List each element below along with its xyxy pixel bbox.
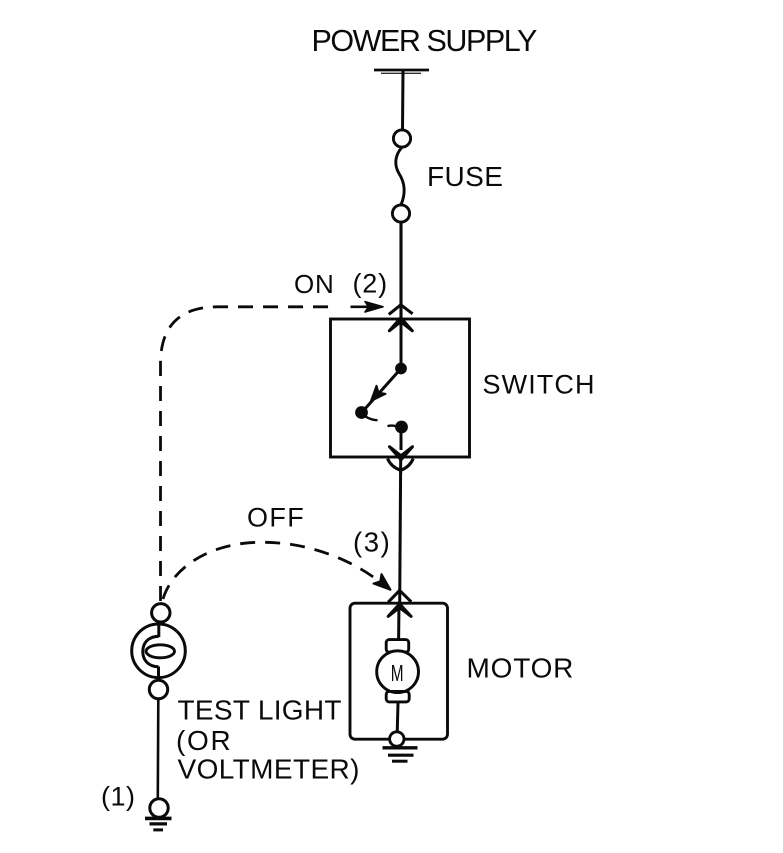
test light bulb body	[132, 624, 186, 678]
OFF curve arrowhead	[374, 574, 391, 590]
wire switch to motor	[400, 458, 401, 602]
switch top contact	[395, 363, 407, 375]
wire fuse to switch connector	[399, 222, 402, 318]
svg-text:(OR: (OR	[176, 725, 232, 756]
connector at switch bottom (arrow + chevron)	[388, 447, 414, 474]
svg-text:TEST LIGHT: TEST LIGHT	[178, 695, 342, 726]
switch left contact	[355, 406, 368, 419]
wire test light to ground	[157, 699, 160, 799]
svg-text:MOTOR: MOTOR	[467, 653, 575, 684]
power supply terminal bar	[374, 70, 429, 73]
switch box	[331, 319, 470, 457]
test light filament ellipse	[146, 645, 174, 658]
fuse F (two circles and wave)	[392, 130, 410, 222]
motor ground junction circle	[390, 732, 404, 746]
svg-text:VOLTMETER): VOLTMETER)	[178, 754, 360, 785]
arrow at (2)	[351, 302, 384, 312]
svg-text:OFF: OFF	[247, 503, 305, 533]
svg-text:M: M	[391, 660, 404, 686]
wire into switch	[400, 320, 403, 363]
svg-text:SWITCH: SWITCH	[483, 370, 596, 400]
svg-text:(2): (2)	[353, 269, 388, 299]
svg-text:POWER SUPPLY: POWER SUPPLY	[312, 24, 538, 58]
motor ground hatches	[383, 748, 418, 761]
wire motor to ground	[396, 703, 400, 733]
switch blade	[364, 369, 402, 411]
test light bottom terminal circle	[149, 680, 167, 698]
svg-text:(1): (1)	[101, 782, 136, 812]
motor box	[350, 603, 448, 739]
svg-text:ON: ON	[294, 269, 335, 299]
switch blade arrowhead	[371, 386, 386, 401]
dashed probe curve ON (from test light up and across)	[161, 307, 335, 601]
wire into motor	[397, 604, 400, 641]
switch bottom contact tick	[388, 424, 396, 427]
test light filament C loop	[143, 636, 159, 667]
motor M1 (brush caps, body, M)	[377, 640, 419, 702]
wire power supply to fuse	[401, 71, 405, 130]
wire to switch bottom edge	[400, 432, 403, 450]
connector at motor top (chevron + arrow)	[388, 590, 411, 616]
connector at switch top (chevron + arrow)	[389, 305, 413, 331]
svg-text:(3): (3)	[353, 527, 391, 558]
dashed probe curve OFF	[163, 542, 374, 599]
switch bottom contact	[395, 421, 408, 434]
svg-text:FUSE: FUSE	[427, 161, 503, 192]
test light top terminal circle	[152, 604, 170, 622]
test light ground hatches	[145, 818, 172, 830]
test light filament stubs	[157, 624, 160, 637]
switch left contact tail	[366, 417, 378, 421]
test light ground circle	[150, 799, 168, 817]
